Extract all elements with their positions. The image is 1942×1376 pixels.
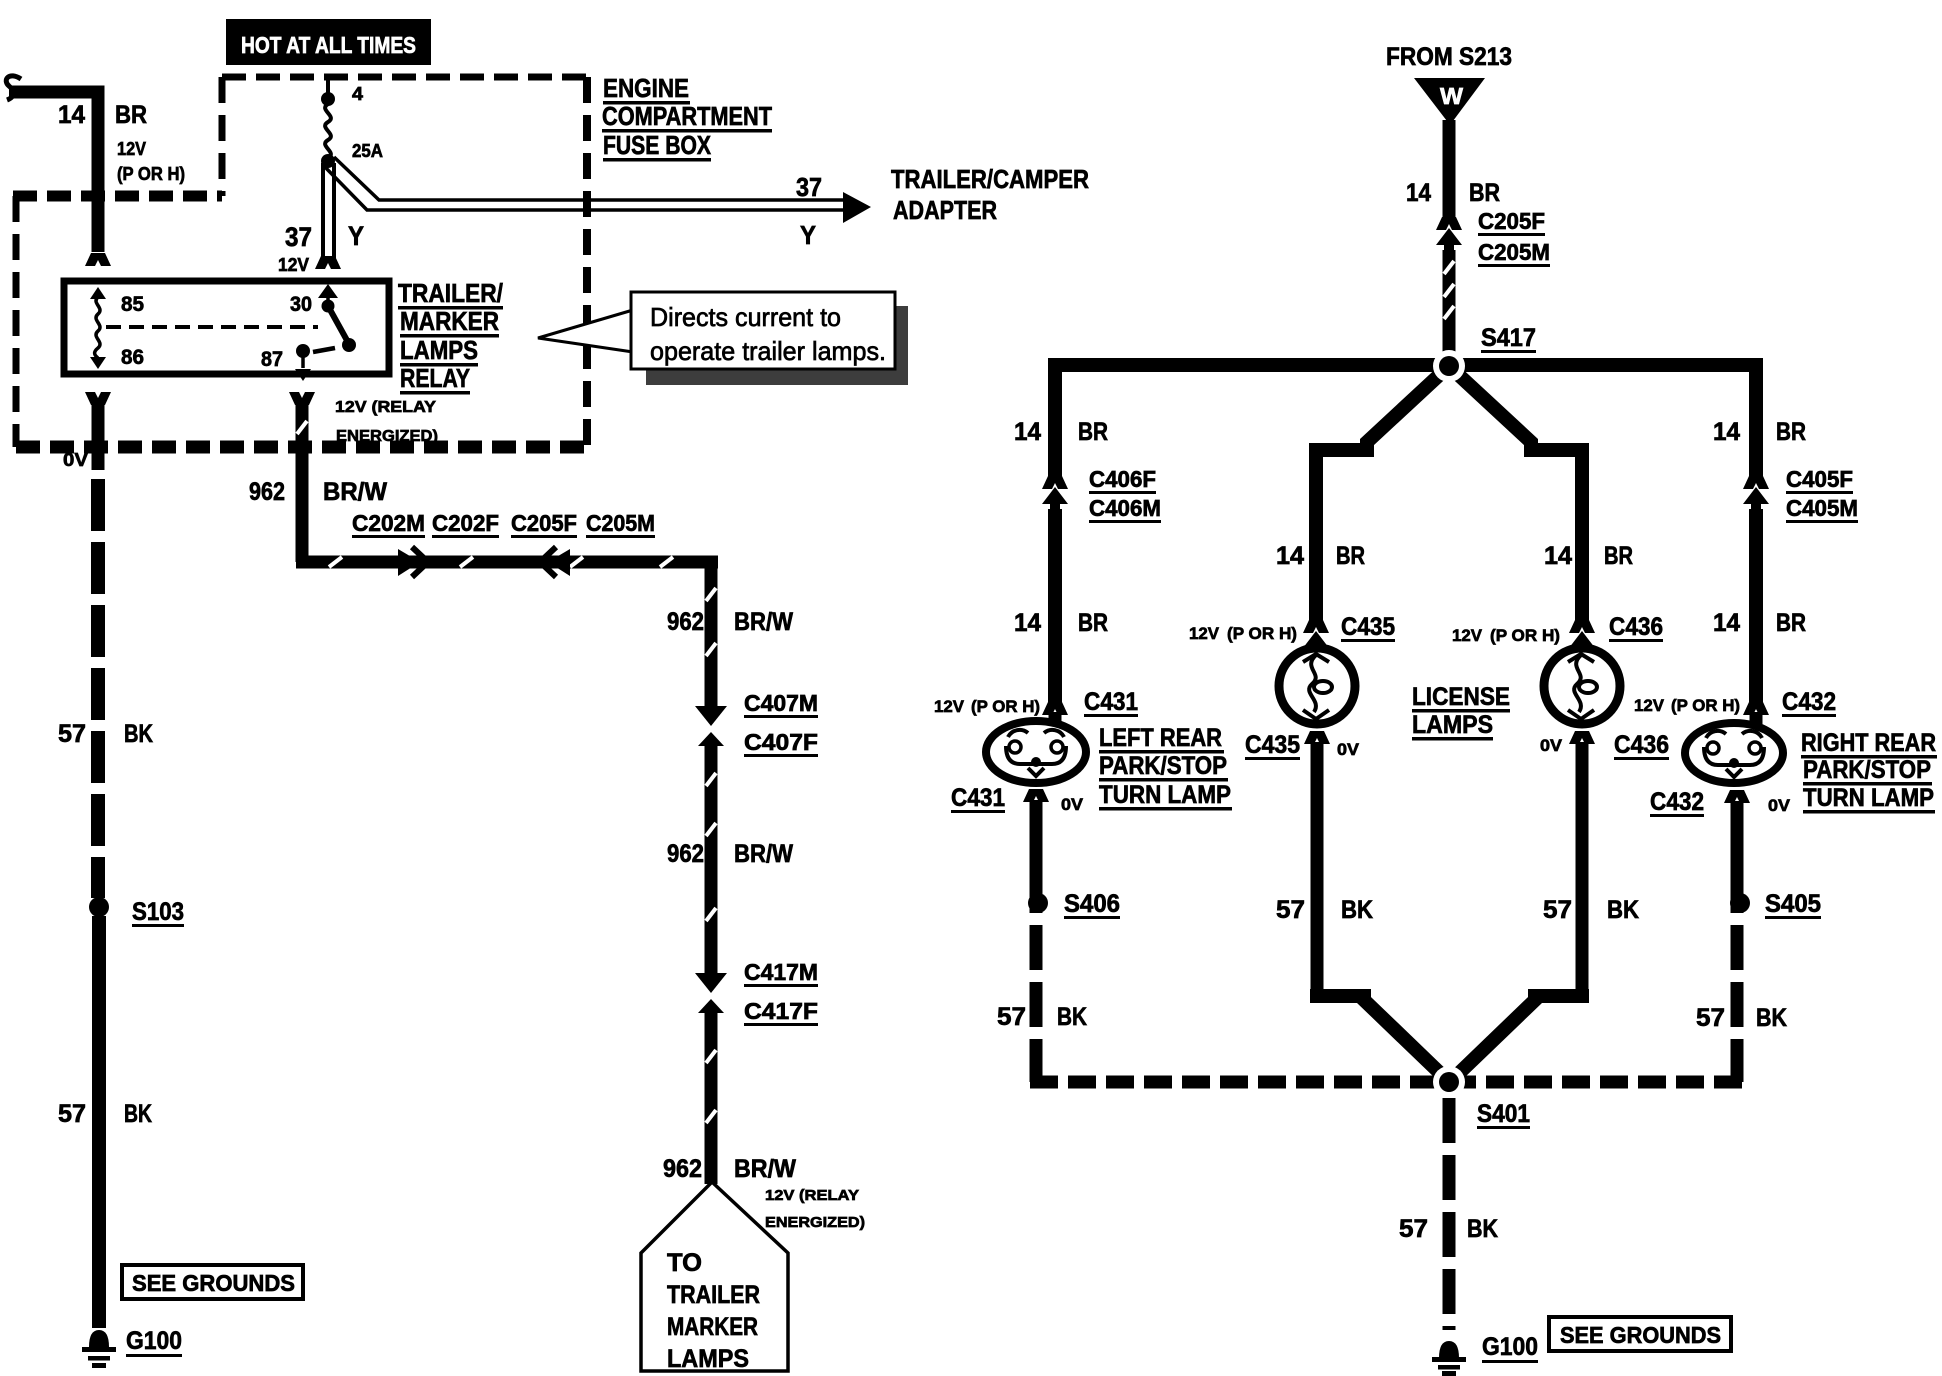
connector C205F C205M <box>1436 217 1462 230</box>
svg-text:SEE GROUNDS: SEE GROUNDS <box>1560 1322 1721 1348</box>
wire slash <box>706 1050 716 1063</box>
svg-text:LICENSE: LICENSE <box>1412 683 1510 711</box>
wire jog right license to S401 <box>1455 989 1582 1077</box>
fuse stub wire <box>326 80 330 98</box>
svg-text:12V: 12V <box>1452 626 1483 645</box>
svg-text:BK: BK <box>1467 1215 1498 1243</box>
splice S406 <box>1028 893 1048 913</box>
wire 962 BR/W pin 87 down <box>296 403 309 562</box>
svg-text:BR: BR <box>1078 609 1108 637</box>
svg-text:TURN LAMP: TURN LAMP <box>1099 781 1231 809</box>
wire pin 86 down <box>92 403 105 470</box>
svg-text:(P OR H): (P OR H) <box>1490 626 1560 645</box>
wire slash <box>660 557 673 567</box>
svg-text:57: 57 <box>1543 896 1572 924</box>
right rear lamp connector ellipse <box>1685 723 1783 783</box>
connector C405F C405M <box>1743 476 1769 489</box>
wire slash <box>706 908 716 921</box>
license lamp right bulb <box>1544 648 1620 724</box>
splice S103 <box>89 897 109 917</box>
connector flare pin 85 entry <box>85 253 111 266</box>
svg-text:14: 14 <box>58 101 85 129</box>
fuse box dashed border bottom 0V line <box>16 441 587 454</box>
svg-text:25A: 25A <box>352 141 383 161</box>
svg-text:RIGHT REAR: RIGHT REAR <box>1801 729 1936 757</box>
svg-text:BK: BK <box>124 720 153 748</box>
svg-text:12V: 12V <box>278 255 309 275</box>
wire 57 BK dashed (left) <box>91 479 105 898</box>
svg-text:C405M: C405M <box>1786 495 1858 521</box>
svg-text:4: 4 <box>352 84 363 104</box>
wire feed 14 BR from hook to relay pin 85 <box>9 92 98 252</box>
wire slash <box>706 1110 716 1123</box>
callout box <box>631 292 895 369</box>
ground G100 right <box>1439 1341 1459 1358</box>
wire slash <box>706 823 716 836</box>
left outer branch wire upper <box>1048 365 1062 478</box>
wire exit left license lamp <box>1304 731 1330 744</box>
wire stub into right rear lamp <box>1750 712 1763 728</box>
svg-text:S417: S417 <box>1481 324 1536 352</box>
wire slash <box>706 588 716 601</box>
svg-text:14: 14 <box>1713 418 1740 446</box>
wire stub into left rear lamp <box>1049 712 1062 726</box>
svg-text:14: 14 <box>1544 542 1572 570</box>
svg-text:RELAY: RELAY <box>400 363 470 393</box>
fuse box dashed border left upper <box>219 77 226 196</box>
wire slash <box>329 557 342 567</box>
wire to S417 <box>1443 250 1456 352</box>
fuse box dashed jog <box>13 191 222 202</box>
connector C436 <box>1569 620 1595 633</box>
svg-text:0V: 0V <box>63 450 88 470</box>
connector C407M C407F arrows <box>695 706 727 726</box>
wire 57 BK solid to G100 <box>92 916 106 1328</box>
license lamp left bulb <box>1279 648 1355 724</box>
svg-text:C405F: C405F <box>1786 466 1853 492</box>
HOT AT ALL TIMES box <box>226 19 431 65</box>
svg-text:ENERGIZED): ENERGIZED) <box>765 1214 865 1231</box>
wire 57 BK dashed right outer <box>1731 868 1744 1082</box>
svg-text:14: 14 <box>1014 418 1041 446</box>
svg-text:57: 57 <box>1276 896 1305 924</box>
svg-text:COMPARTMENT: COMPARTMENT <box>602 101 772 131</box>
relay switch dash to pin 87 <box>313 348 335 352</box>
svg-text:BK: BK <box>1756 1004 1787 1032</box>
svg-text:ENERGIZED): ENERGIZED) <box>336 428 438 445</box>
svg-text:962: 962 <box>663 1155 702 1183</box>
svg-text:57: 57 <box>1399 1215 1428 1243</box>
svg-text:C435: C435 <box>1341 613 1395 641</box>
svg-text:37: 37 <box>285 222 312 252</box>
inner right license branch wire <box>1575 455 1589 622</box>
svg-text:LAMPS: LAMPS <box>1412 711 1493 739</box>
svg-text:962: 962 <box>249 478 285 506</box>
svg-text:C202M: C202M <box>352 510 425 536</box>
svg-text:TRAILER: TRAILER <box>667 1281 760 1309</box>
svg-text:Directs current to: Directs current to <box>650 302 841 332</box>
svg-text:(P OR H): (P OR H) <box>117 164 185 184</box>
SEE GROUNDS box right <box>1549 1317 1731 1351</box>
splice S405 <box>1730 893 1750 913</box>
svg-text:S405: S405 <box>1765 890 1821 918</box>
relay internal dashed line <box>106 325 318 329</box>
svg-text:14: 14 <box>1014 609 1041 637</box>
relay switch blade <box>328 306 349 344</box>
svg-text:(P OR H): (P OR H) <box>1671 696 1740 715</box>
svg-text:BR: BR <box>1776 418 1806 446</box>
relay pin 87 dot <box>296 344 310 358</box>
svg-text:BR/W: BR/W <box>323 478 387 506</box>
connector C432 flare <box>1743 702 1769 715</box>
right rear lamp inner detail <box>1706 731 1726 738</box>
svg-text:BK: BK <box>1057 1003 1087 1031</box>
wire 57 BK dashed to G100 right <box>1443 1098 1456 1330</box>
connector flare pin 87 below relay <box>289 392 315 405</box>
svg-text:S103: S103 <box>132 898 184 926</box>
svg-text:C431: C431 <box>951 784 1005 812</box>
connector C431 flare <box>1042 702 1068 715</box>
wire slash <box>297 421 307 434</box>
wire slash <box>1444 306 1454 319</box>
left outer branch wire lower <box>1048 509 1062 704</box>
wire 962 BR/W vertical run <box>705 556 718 708</box>
connector C417M C417F arrows <box>695 973 727 993</box>
connector C205F C205M arrow <box>548 549 570 576</box>
svg-text:0V: 0V <box>1768 796 1791 815</box>
svg-text:C417M: C417M <box>744 959 818 985</box>
ground G100 left <box>89 1330 109 1347</box>
wire 57 BK dashed left outer <box>1030 868 1043 1082</box>
svg-text:C406M: C406M <box>1089 495 1161 521</box>
svg-text:C431: C431 <box>1084 688 1138 716</box>
svg-text:FUSE BOX: FUSE BOX <box>603 130 712 160</box>
svg-text:BR: BR <box>1469 179 1500 207</box>
wire jog left license to S401 <box>1317 989 1444 1077</box>
svg-text:FROM S213: FROM S213 <box>1386 43 1512 71</box>
svg-text:0V: 0V <box>1337 740 1360 759</box>
relay switch blade end dot <box>342 338 356 352</box>
svg-text:ENGINE: ENGINE <box>603 73 689 103</box>
wire diagonal S417 to left license branch <box>1316 366 1449 460</box>
svg-text:12V (RELAY: 12V (RELAY <box>765 1187 859 1204</box>
callout pointer <box>538 310 633 352</box>
relay box trailer/marker lamps relay <box>64 281 389 374</box>
wire dashed bottom bus <box>1030 1076 1743 1089</box>
svg-text:LAMPS: LAMPS <box>667 1345 749 1373</box>
svg-text:12V: 12V <box>1634 696 1665 715</box>
triangle FROM S213 <box>1414 78 1485 125</box>
relay switch pivot dot <box>322 300 335 313</box>
wire exit left rear lamp <box>1023 789 1049 802</box>
svg-text:57: 57 <box>997 1003 1026 1031</box>
fuse top junction dot <box>321 92 335 106</box>
splice S417 node <box>1433 350 1465 382</box>
svg-text:G100: G100 <box>126 1327 182 1355</box>
wire 37 Y double-line vertical to relay pin 30 <box>321 163 325 258</box>
svg-text:ADAPTER: ADAPTER <box>893 195 997 225</box>
svg-text:85: 85 <box>121 293 144 316</box>
svg-text:HOT AT ALL TIMES: HOT AT ALL TIMES <box>241 32 416 58</box>
wire diagonal S417 to right license branch <box>1449 366 1582 460</box>
svg-text:TRAILER/: TRAILER/ <box>398 278 503 308</box>
svg-text:W: W <box>1440 83 1463 109</box>
arrow to trailer/camper adapter <box>843 192 871 223</box>
connector C202M C202F arrow <box>398 549 420 576</box>
svg-text:87: 87 <box>261 348 283 371</box>
svg-text:TO: TO <box>667 1249 702 1277</box>
wire slash <box>460 557 473 567</box>
wire 962 BR/W horizontal run <box>296 556 718 569</box>
callout shadow <box>646 306 908 385</box>
left rear lamp inner detail <box>1008 730 1028 737</box>
relay coil arrow down <box>90 357 106 369</box>
wire bus horizontal left of S417 <box>1055 358 1449 365</box>
inner left license branch wire <box>1309 455 1323 622</box>
fuse box dashed border top <box>222 74 590 81</box>
svg-text:G100: G100 <box>1482 1333 1538 1361</box>
svg-text:S406: S406 <box>1064 890 1120 918</box>
svg-text:30: 30 <box>290 293 312 316</box>
svg-text:57: 57 <box>58 1100 86 1128</box>
relay pin 87 arrow down <box>301 351 305 368</box>
svg-text:C407F: C407F <box>744 729 818 755</box>
wire slash <box>1444 284 1454 297</box>
svg-text:BR/W: BR/W <box>734 608 793 636</box>
svg-text:BR: BR <box>1776 609 1806 637</box>
svg-text:12V: 12V <box>934 697 965 716</box>
right outer branch wire lower <box>1749 509 1763 704</box>
connector fork at pin 30 feed <box>315 256 341 269</box>
wire slash <box>570 557 583 567</box>
wire slash <box>706 643 716 656</box>
svg-text:C205F: C205F <box>511 510 577 536</box>
svg-text:12V (RELAY: 12V (RELAY <box>335 399 436 416</box>
svg-text:BK: BK <box>124 1100 152 1128</box>
svg-text:962: 962 <box>667 608 704 636</box>
svg-text:0V: 0V <box>1540 736 1563 755</box>
svg-text:PARK/STOP: PARK/STOP <box>1099 752 1227 780</box>
svg-text:962: 962 <box>667 840 704 868</box>
svg-text:12V: 12V <box>117 139 146 159</box>
fuse box dashed border left lower <box>13 196 20 447</box>
svg-text:12V: 12V <box>1189 624 1220 643</box>
svg-text:C436: C436 <box>1609 613 1663 641</box>
svg-text:C406F: C406F <box>1089 466 1156 492</box>
wire continuation hook top-left <box>6 76 21 100</box>
svg-text:BR: BR <box>115 101 147 129</box>
svg-text:C205M: C205M <box>586 510 655 536</box>
relay coil squiggle <box>95 297 100 358</box>
svg-text:BR/W: BR/W <box>734 1155 796 1183</box>
wire 962 BR/W vertical run 3 <box>705 1007 718 1184</box>
svg-text:BR: BR <box>1078 418 1108 446</box>
svg-text:57: 57 <box>58 720 86 748</box>
left rear lamp connector ellipse <box>986 721 1086 783</box>
svg-text:S401: S401 <box>1477 1100 1530 1128</box>
svg-text:C435: C435 <box>1245 731 1300 759</box>
svg-text:37: 37 <box>796 172 822 202</box>
svg-text:86: 86 <box>121 346 144 369</box>
relay pin 30 arrow <box>318 284 338 298</box>
connector C406F C406M <box>1042 476 1068 489</box>
right outer branch wire upper <box>1749 365 1763 478</box>
svg-text:C436: C436 <box>1614 731 1669 759</box>
svg-text:SEE GROUNDS: SEE GROUNDS <box>132 1270 295 1296</box>
svg-text:57: 57 <box>1696 1004 1725 1032</box>
svg-text:operate trailer lamps.: operate trailer lamps. <box>650 336 886 366</box>
svg-text:LAMPS: LAMPS <box>400 335 478 365</box>
svg-text:14: 14 <box>1276 542 1304 570</box>
fuse 25A squiggle <box>325 104 331 158</box>
svg-text:Y: Y <box>348 221 364 251</box>
wire 37 Y double-line to trailer/camper adapter <box>323 165 843 210</box>
wire slash <box>706 773 716 786</box>
svg-text:0V: 0V <box>1061 795 1084 814</box>
svg-text:C432: C432 <box>1650 788 1704 816</box>
svg-text:(P OR H): (P OR H) <box>1227 624 1297 643</box>
wire bus horizontal right of S417 <box>1449 358 1756 365</box>
svg-text:(P OR H): (P OR H) <box>971 697 1040 716</box>
svg-text:BK: BK <box>1607 896 1639 924</box>
svg-text:C407M: C407M <box>744 690 818 716</box>
pentagon TO TRAILER MARKER LAMPS <box>641 1182 788 1371</box>
svg-text:C202F: C202F <box>432 510 499 536</box>
relay coil arrow up <box>90 287 106 299</box>
splice S401 node <box>1433 1066 1465 1098</box>
svg-text:Y: Y <box>800 220 816 250</box>
wire 14 BR from S213 <box>1443 120 1456 219</box>
svg-text:LEFT REAR: LEFT REAR <box>1099 724 1222 752</box>
wire exit right rear lamp <box>1724 790 1750 803</box>
svg-text:BR: BR <box>1336 542 1365 570</box>
svg-text:C417F: C417F <box>744 998 818 1024</box>
svg-text:C205M: C205M <box>1478 239 1550 265</box>
svg-text:BR/W: BR/W <box>734 840 793 868</box>
svg-text:MARKER: MARKER <box>667 1313 758 1341</box>
SEE GROUNDS box left <box>122 1265 303 1299</box>
svg-text:TURN LAMP: TURN LAMP <box>1803 784 1934 812</box>
wire slash <box>1444 261 1454 274</box>
svg-text:MARKER: MARKER <box>400 306 499 336</box>
svg-text:14: 14 <box>1406 179 1431 207</box>
svg-text:14: 14 <box>1713 609 1740 637</box>
svg-text:BR: BR <box>1604 542 1633 570</box>
fuse box dashed border right <box>583 77 591 447</box>
svg-text:C432: C432 <box>1782 688 1836 716</box>
connector flare pin 86 below relay <box>85 392 111 405</box>
svg-text:TRAILER/CAMPER: TRAILER/CAMPER <box>891 164 1089 194</box>
svg-text:BK: BK <box>1341 896 1373 924</box>
svg-text:PARK/STOP: PARK/STOP <box>1803 756 1931 784</box>
fuse bottom junction dot <box>321 154 335 168</box>
wire exit right license lamp <box>1569 731 1595 744</box>
connector C435 <box>1303 620 1329 633</box>
svg-text:C205F: C205F <box>1478 208 1545 234</box>
wire 962 BR/W vertical run 2 <box>705 740 718 975</box>
